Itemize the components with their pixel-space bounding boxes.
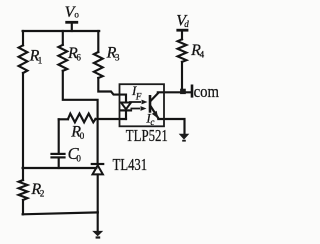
svg-text:F: F — [135, 92, 142, 102]
svg-text:com: com — [194, 82, 220, 101]
svg-text:TL431: TL431 — [113, 155, 148, 174]
svg-text:o: o — [74, 10, 79, 20]
svg-text:1: 1 — [38, 56, 43, 66]
svg-text:4: 4 — [200, 50, 205, 60]
svg-text:TLP521: TLP521 — [126, 126, 168, 145]
svg-text:3: 3 — [115, 52, 120, 62]
svg-text:0: 0 — [76, 153, 81, 163]
svg-text:6: 6 — [76, 53, 81, 63]
svg-text:2: 2 — [40, 189, 45, 199]
svg-text:0: 0 — [80, 131, 85, 141]
svg-text:d: d — [184, 19, 189, 29]
